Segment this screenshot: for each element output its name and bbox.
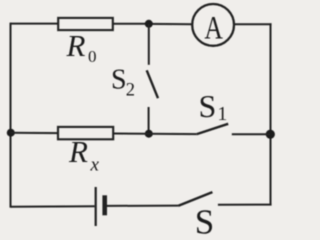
wire node to ammeter [149, 23, 193, 25]
wire middle node to switch S1 [149, 133, 197, 135]
label Rx [68, 134, 100, 175]
node top (junction) [145, 20, 153, 28]
wire battery to switch S [107, 205, 178, 207]
svg-text:2: 2 [126, 81, 135, 101]
resistor Rx [58, 127, 113, 139]
battery short plate (-) [102, 195, 107, 215]
svg-text:1: 1 [218, 104, 228, 125]
node right middle (junction) [266, 130, 275, 139]
switch S1 blade [197, 124, 228, 134]
svg-text:R: R [66, 28, 86, 63]
wire left side vertical [10, 23, 12, 208]
wire Rx to middle node [113, 133, 149, 135]
label R0 [66, 28, 97, 66]
wire R0 to node [113, 23, 149, 25]
label S2 [111, 65, 135, 101]
svg-text:0: 0 [88, 47, 97, 66]
svg-text:A: A [204, 11, 223, 47]
wire S2 branch upper [148, 24, 150, 65]
ammeter A1 [192, 4, 234, 46]
wire S1 to right node [232, 133, 270, 135]
switch S2 blade [147, 70, 158, 98]
node middle (junction) [145, 130, 153, 138]
svg-text:S: S [111, 65, 127, 96]
resistor R0 [58, 18, 113, 30]
node left middle (junction) [7, 129, 15, 137]
battery long plate (+) [95, 187, 97, 226]
wire bottom rail left [11, 205, 95, 208]
svg-text:S: S [199, 88, 217, 124]
svg-text:R: R [68, 134, 88, 169]
wire S to bottom-right corner [218, 204, 272, 206]
svg-text:x: x [90, 155, 100, 176]
wire right side vertical [270, 23, 272, 204]
switch S blade [178, 192, 212, 206]
wire middle rail left [11, 132, 58, 134]
wire ammeter to top-right corner [234, 23, 272, 25]
svg-text:S: S [195, 203, 214, 235]
wire top-left segment [11, 23, 59, 25]
label S1 [199, 88, 228, 125]
wire S2 branch lower [148, 107, 150, 134]
